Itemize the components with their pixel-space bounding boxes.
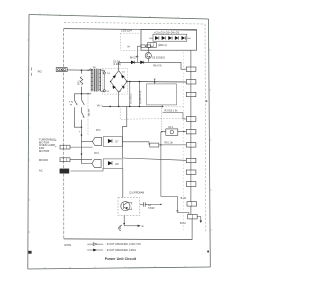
wire Q1 to C4 bbox=[140, 203, 144, 205]
connector CN3 bbox=[186, 92, 196, 96]
svg-text:+D1+D2+D3+D4+D5: +D1+D2+D3+D4+D5 bbox=[154, 32, 180, 35]
terminal box 2 bbox=[60, 158, 70, 162]
connector CN10 bbox=[187, 202, 197, 206]
open arrow symbol bbox=[87, 243, 103, 246]
svg-text:BH 27: BH 27 bbox=[130, 57, 137, 60]
right connector column wire bbox=[191, 50, 192, 239]
secondary top wire to bridge bbox=[101, 70, 105, 71]
wire C4 to connector bbox=[147, 203, 161, 205]
small mark right mid bbox=[206, 100, 208, 101]
main drop wire to relays bbox=[82, 127, 93, 163]
svg-text:R6 4.7k: R6 4.7k bbox=[153, 64, 162, 67]
wire CN11 to arrow bbox=[197, 217, 201, 221]
svg-text:AC: AC bbox=[39, 168, 43, 172]
wire primary bottom bbox=[74, 93, 91, 95]
dashed line monitor bbox=[87, 94, 89, 135]
black connector block bbox=[60, 169, 70, 174]
LED LD4 bbox=[175, 36, 179, 39]
svg-text:MICRO: MICRO bbox=[39, 158, 49, 162]
frame tick marks bbox=[28, 14, 212, 269]
wire R loop bbox=[136, 46, 138, 62]
dashed board boundary bbox=[182, 52, 184, 230]
CF1 box bbox=[166, 129, 178, 135]
R3 dashed drop bbox=[161, 105, 163, 132]
stub to box top bbox=[154, 79, 156, 84]
svg-text:: IF NOT SPECIFIED, 1/4W ± 5%: : IF NOT SPECIFIED, 1/4W ± 5% bbox=[105, 243, 141, 246]
wire bridge top to D8 D9 row bbox=[119, 62, 187, 70]
wire RY2 row to connector bbox=[123, 158, 187, 160]
wire plug to transformer bbox=[67, 69, 91, 71]
Q1 dashed box bbox=[118, 198, 140, 216]
node circle top bbox=[103, 72, 105, 74]
wire R3 to connector bbox=[163, 113, 187, 119]
svg-text:C8 2SA933: C8 2SA933 bbox=[152, 56, 165, 59]
dashed enclosure right line bbox=[204, 24, 207, 232]
LED row inner box bbox=[153, 34, 187, 41]
node circle bottom bbox=[103, 90, 105, 92]
junction left bbox=[110, 81, 111, 82]
aux box (relay block) bbox=[147, 84, 177, 105]
wire ground row arrow bbox=[124, 225, 137, 227]
wire Q1 drop bbox=[122, 168, 124, 197]
svg-text:Power Unit Circuit: Power Unit Circuit bbox=[105, 257, 137, 261]
Q1 transistor bbox=[121, 202, 130, 211]
connector 2RA-1 bbox=[148, 43, 157, 48]
svg-text:CF-1: CF-1 bbox=[168, 126, 174, 129]
LED board box bbox=[141, 30, 197, 51]
diode D7 bbox=[108, 139, 112, 143]
svg-text:MOTOR: MOTOR bbox=[39, 149, 49, 153]
node junction bbox=[81, 69, 83, 71]
ground bbox=[118, 225, 121, 231]
secondary drop wires bbox=[130, 82, 140, 107]
svg-text:VH: VH bbox=[97, 105, 101, 108]
wire bridge bottom to VH rail bbox=[118, 92, 120, 106]
svg-text:RY2: RY2 bbox=[94, 152, 99, 155]
wire R8 row bbox=[123, 142, 187, 145]
binding mark right bbox=[207, 251, 209, 253]
bridge diode top-right bbox=[121, 75, 124, 78]
wire switch bottom bbox=[74, 121, 81, 128]
terminal box 1 bbox=[60, 145, 70, 149]
LED LD1 bbox=[155, 36, 159, 39]
small box on R8 wire bbox=[150, 143, 159, 147]
wires terminals to relays bbox=[70, 146, 93, 148]
bridge diode bottom-right bbox=[121, 85, 124, 89]
resistor R1 R2 boxes bbox=[141, 45, 145, 48]
svg-text:Q1 IPRD64M: Q1 IPRD64M bbox=[129, 192, 144, 195]
switch S1 on primary bbox=[87, 69, 93, 71]
LED LD5 bbox=[182, 36, 186, 39]
diode D8 bbox=[131, 61, 134, 64]
connector CN2 bbox=[186, 80, 196, 84]
svg-text:VR1: VR1 bbox=[78, 80, 81, 85]
svg-text:(1 E51): (1 E51) bbox=[113, 63, 121, 66]
interlock switch column mid bbox=[82, 94, 85, 127]
diode D9 bbox=[141, 61, 144, 64]
connector CN1 bbox=[186, 67, 196, 71]
connector CN9 bbox=[186, 182, 196, 187]
connector CN8 bbox=[186, 170, 196, 174]
page frame bbox=[28, 15, 211, 270]
svg-text:LD1-LD4: LD1-LD4 bbox=[121, 29, 132, 33]
svg-text:(B) SW: (B) SW bbox=[89, 108, 91, 116]
wire VH drop to relays bbox=[123, 106, 127, 158]
svg-text:B-LB: B-LB bbox=[181, 197, 187, 200]
svg-text:(2) 400-05 (2): (2) 400-05 (2) bbox=[140, 90, 142, 104]
wire LED row bbox=[149, 37, 191, 39]
secondary rail top bbox=[127, 81, 186, 84]
LED LD2 bbox=[162, 36, 166, 39]
diode box D8 bbox=[103, 159, 122, 169]
connector CN11 bbox=[188, 215, 198, 219]
inner circuit board box bbox=[64, 29, 197, 240]
wire Q1 emitter down bbox=[123, 215, 125, 225]
svg-text:R3 910 1.9s: R3 910 1.9s bbox=[165, 109, 179, 112]
connector CN7 bbox=[186, 158, 196, 162]
diode D8 bbox=[108, 161, 112, 165]
filled arrow symbol bbox=[87, 249, 103, 251]
svg-text:7n50V: 7n50V bbox=[148, 208, 155, 210]
svg-text:: IF NOT SPECIFIED, 1S921: : IF NOT SPECIFIED, 1S921 bbox=[105, 249, 136, 252]
svg-text:O-L Yellow: O-L Yellow bbox=[131, 93, 133, 104]
svg-text:RY1: RY1 bbox=[96, 129, 101, 132]
wires CF1 bbox=[162, 131, 187, 133]
svg-text:(2RA-1): (2RA-1) bbox=[158, 44, 167, 47]
diode box D7 bbox=[103, 137, 122, 147]
dashed enclosure top line bbox=[64, 22, 205, 24]
LED LD3 bbox=[169, 36, 173, 39]
dashed partition bbox=[120, 108, 185, 119]
dashed LED board boundary bbox=[121, 33, 142, 50]
tick D7 bbox=[136, 55, 139, 57]
connector CN5 bbox=[186, 129, 196, 134]
fold mark bbox=[31, 68, 33, 76]
capacitor C4 bbox=[143, 202, 147, 207]
svg-text:R8 1.3k: R8 1.3k bbox=[165, 142, 174, 145]
connector CN4 bbox=[186, 117, 196, 122]
binding mark left bbox=[28, 251, 31, 254]
transformer T1 bbox=[91, 69, 100, 91]
ac inlet plug bbox=[56, 68, 67, 72]
transistor Q2 bbox=[145, 52, 151, 58]
svg-text:NOTE: NOTE bbox=[64, 244, 71, 247]
bridge dashed box bbox=[102, 69, 127, 95]
bridge diode top-left bbox=[113, 75, 116, 78]
bridge diode bottom-left bbox=[112, 86, 115, 89]
connector CN6 bbox=[186, 143, 196, 147]
bridge rectifier diamond bbox=[111, 71, 127, 93]
interlock switch column left bbox=[74, 94, 77, 121]
